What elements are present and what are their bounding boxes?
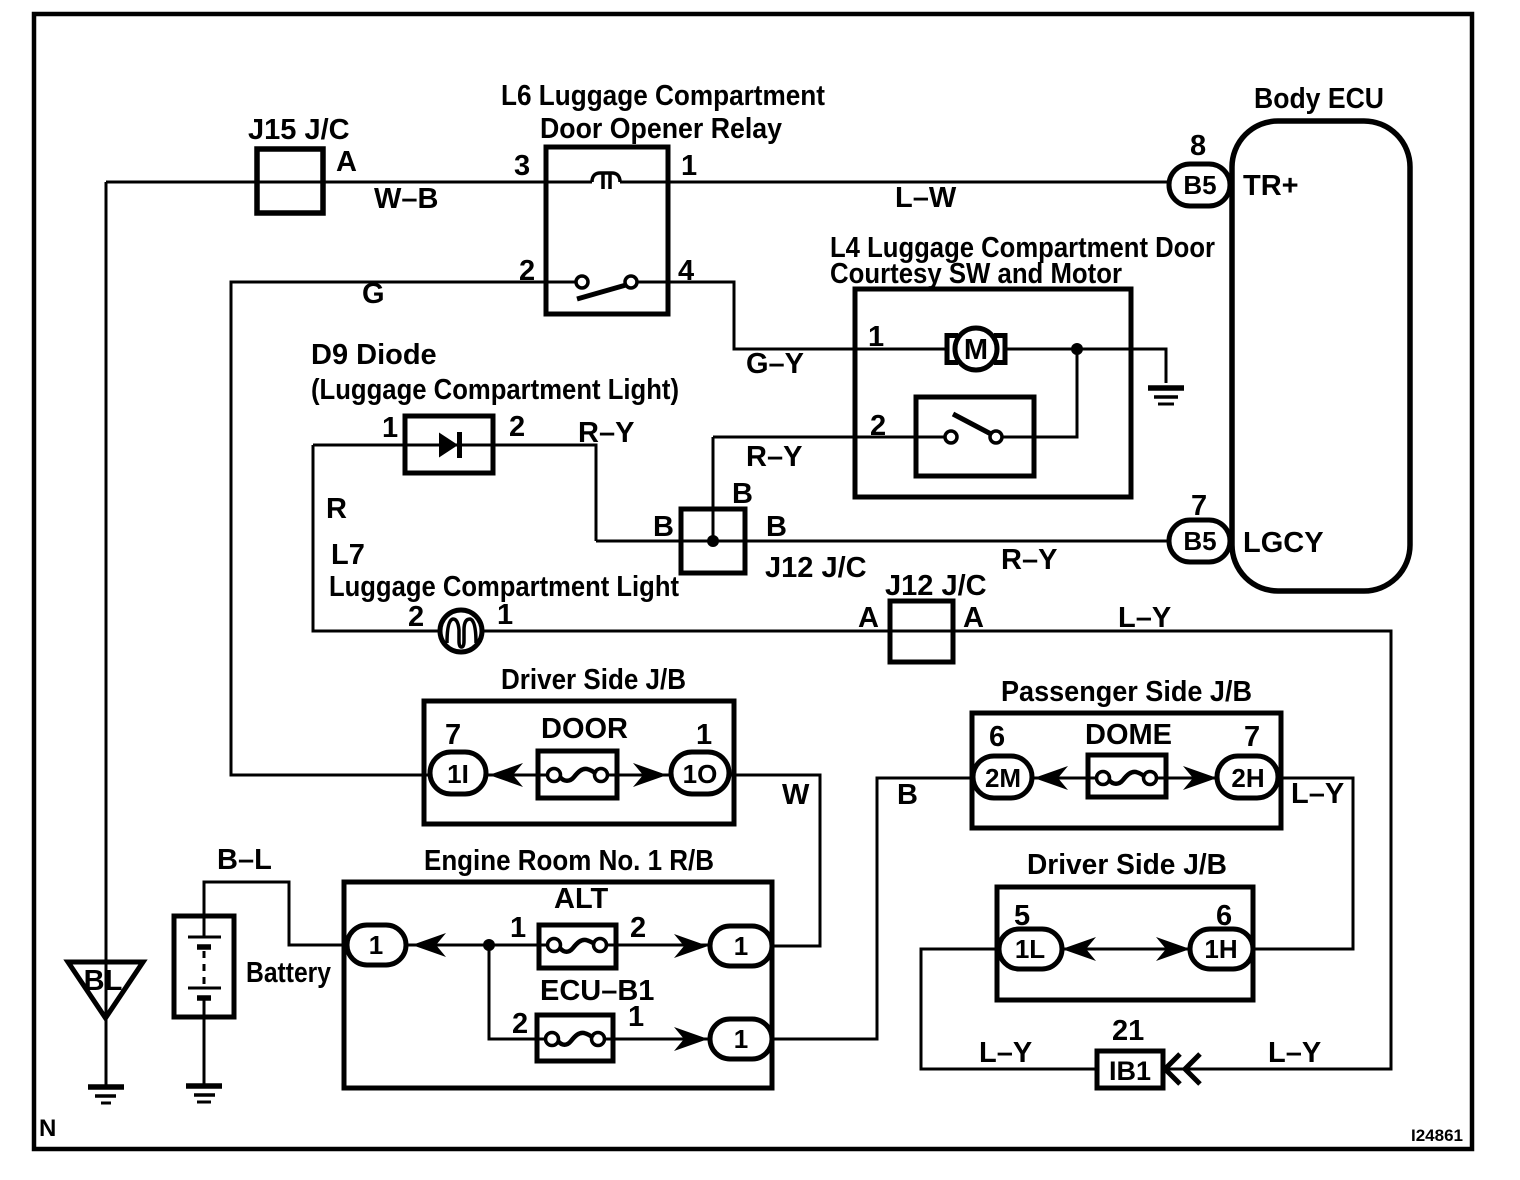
wire: inside Passenger Side J/B 2M to DOME fuse bbox=[1031, 777, 1097, 780]
wire W: 1O right down to Engine Room ALT output bbox=[728, 775, 820, 946]
svg-text:L–Y: L–Y bbox=[1291, 778, 1344, 810]
svg-text:1: 1 bbox=[369, 930, 383, 960]
svg-text:BL: BL bbox=[84, 965, 123, 997]
passenger side J/B box bbox=[972, 713, 1281, 828]
svg-text:21: 21 bbox=[1112, 1015, 1144, 1047]
fuse ECU-B1 element bbox=[546, 1033, 559, 1046]
svg-text:J12 J/C: J12 J/C bbox=[885, 570, 987, 602]
svg-text:R–Y: R–Y bbox=[578, 417, 634, 449]
wire: Engine Room input oval to junction and ALT fuse bbox=[405, 944, 547, 947]
svg-text:7: 7 bbox=[1191, 490, 1207, 522]
svg-text:Body ECU: Body ECU bbox=[1254, 83, 1384, 115]
svg-text:1L: 1L bbox=[1015, 934, 1045, 964]
svg-text:2M: 2M bbox=[985, 763, 1021, 793]
svg-text:1: 1 bbox=[734, 931, 748, 961]
junction dot motor/ground node bbox=[1071, 343, 1083, 355]
fuse DOOR box bbox=[538, 751, 617, 798]
arrow ALT output (right) bbox=[674, 934, 708, 958]
wire W-B: left vertical from top wire down to BL bbox=[105, 182, 108, 1085]
wire L-Y: lamp pin1 through J12 A-A right then down to IB1 bbox=[481, 631, 1391, 1069]
svg-text:1: 1 bbox=[382, 412, 398, 444]
svg-text:DOME: DOME bbox=[1085, 719, 1172, 751]
wire: courtesy switch right contact up to motor junction bbox=[1002, 352, 1077, 437]
connector oval 1L bbox=[999, 929, 1062, 969]
fuse DOOR element bbox=[548, 769, 561, 782]
wire W-B: horizontal from vertical through J15 to relay pin 3 bbox=[106, 181, 592, 184]
svg-text:G: G bbox=[362, 278, 385, 310]
svg-text:TR+: TR+ bbox=[1243, 170, 1299, 202]
svg-text:L–Y: L–Y bbox=[1268, 1037, 1321, 1069]
svg-text:1: 1 bbox=[681, 150, 697, 182]
svg-text:2: 2 bbox=[509, 411, 525, 443]
connector oval 1H bbox=[1190, 929, 1253, 969]
connector oval 2M bbox=[973, 756, 1032, 798]
fuse ALT box bbox=[539, 925, 616, 968]
battery bbox=[174, 916, 234, 1017]
wire L-Y: IB1 left to Driver Side J/B 1L bbox=[921, 949, 1097, 1069]
svg-text:ALT: ALT bbox=[554, 883, 609, 915]
wire R: vertical diode pin1 to lamp pin 2 bbox=[313, 445, 441, 631]
wire: DOOR fuse to 1O bbox=[607, 774, 672, 777]
svg-text:J15 J/C: J15 J/C bbox=[248, 114, 350, 146]
svg-text:1: 1 bbox=[628, 1001, 644, 1033]
svg-text:W: W bbox=[782, 779, 810, 811]
body ECU box bbox=[1232, 121, 1410, 591]
svg-text:A: A bbox=[858, 602, 879, 634]
connector IB1 bbox=[1097, 1051, 1163, 1088]
svg-text:3: 3 bbox=[514, 150, 530, 182]
diode D9 symbol bbox=[439, 433, 458, 458]
ground G2 (battery) bbox=[186, 1086, 222, 1102]
wire: 1L to 1H inside lower Driver Side J/B bbox=[1061, 948, 1191, 951]
wire L-Y: 2H right down to 1H bbox=[1252, 778, 1353, 949]
relay L6 coil bbox=[592, 173, 620, 182]
L4 luggage compartment door box bbox=[855, 289, 1131, 497]
svg-text:L6 Luggage Compartment: L6 Luggage Compartment bbox=[501, 80, 825, 112]
svg-text:B–L: B–L bbox=[217, 844, 272, 876]
junction connector J12 J/C (B) bbox=[681, 509, 745, 573]
svg-text:A: A bbox=[336, 146, 357, 178]
connector oval 1I bbox=[430, 752, 486, 794]
lamp L7 luggage compartment light bbox=[440, 610, 482, 652]
svg-text:B: B bbox=[653, 511, 674, 543]
svg-text:Battery: Battery bbox=[246, 957, 331, 989]
svg-text:R: R bbox=[326, 493, 347, 525]
svg-text:B5: B5 bbox=[1183, 170, 1216, 200]
relay L6 switch contacts bbox=[576, 276, 588, 288]
svg-text:1I: 1I bbox=[447, 759, 469, 789]
wire B: 2M left down to Engine Room ECU-B1 output bbox=[771, 778, 974, 1039]
svg-text:B: B bbox=[766, 511, 787, 543]
connector J15 J/C bbox=[257, 149, 323, 213]
svg-text:R–Y: R–Y bbox=[746, 441, 802, 473]
wire: ECU-B1 fuse to right oval 1 bbox=[604, 1038, 711, 1041]
svg-text:1: 1 bbox=[734, 1024, 748, 1054]
wire L-W: relay pin 1 to Body ECU B5 TR+ bbox=[620, 181, 1170, 184]
wire R-Y: through J12 J/C to Body ECU B5 LGCY bbox=[596, 540, 1170, 543]
svg-text:L–Y: L–Y bbox=[979, 1037, 1032, 1069]
wire: diode branch from R net to R-Y wire bbox=[313, 445, 596, 541]
fuse ECU-B1 box bbox=[537, 1015, 613, 1061]
svg-text:8: 8 bbox=[1190, 130, 1206, 162]
svg-text:M: M bbox=[964, 334, 988, 366]
engine room No.1 R/B box bbox=[344, 882, 772, 1088]
svg-text:L7: L7 bbox=[331, 539, 365, 571]
svg-text:1H: 1H bbox=[1204, 934, 1237, 964]
wire: DOME fuse to 2H bbox=[1155, 777, 1218, 780]
svg-text:1: 1 bbox=[510, 912, 526, 944]
svg-text:Courtesy SW and Motor: Courtesy SW and Motor bbox=[830, 258, 1122, 290]
courtesy switch blade bbox=[953, 414, 991, 434]
svg-text:6: 6 bbox=[989, 721, 1005, 753]
fuse ALT element bbox=[548, 939, 561, 952]
svg-text:Passenger Side J/B: Passenger Side J/B bbox=[1001, 676, 1252, 708]
svg-text:2H: 2H bbox=[1231, 763, 1264, 793]
wire: IB1 to right vertical bbox=[1163, 1068, 1391, 1071]
svg-text:R–Y: R–Y bbox=[1001, 544, 1057, 576]
svg-text:4: 4 bbox=[678, 255, 694, 287]
svg-text:1O: 1O bbox=[683, 759, 718, 789]
connector oval 1 (ECU-B1 output) bbox=[710, 1019, 772, 1059]
connector oval 1 (ALT output) bbox=[710, 926, 772, 966]
svg-text:Door Opener Relay: Door Opener Relay bbox=[540, 113, 782, 145]
wire: battery negative to ground bbox=[203, 1017, 206, 1084]
svg-text:1: 1 bbox=[497, 599, 513, 631]
svg-text:1: 1 bbox=[868, 321, 884, 353]
svg-text:A: A bbox=[963, 602, 984, 634]
ground G3 (BL) bbox=[88, 1087, 124, 1103]
svg-text:L–Y: L–Y bbox=[1118, 602, 1171, 634]
svg-text:I24861: I24861 bbox=[1411, 1126, 1463, 1145]
svg-text:(Luggage Compartment Light): (Luggage Compartment Light) bbox=[311, 374, 679, 406]
svg-text:IB1: IB1 bbox=[1109, 1056, 1151, 1086]
arrow into 1L (left) bbox=[1062, 937, 1096, 961]
wire B-L: battery positive to Engine Room input 1 bbox=[204, 882, 348, 945]
connector oval B5 pin 8 TR+ bbox=[1169, 164, 1230, 206]
svg-text:G–Y: G–Y bbox=[746, 348, 804, 380]
svg-text:B: B bbox=[897, 779, 918, 811]
svg-text:2: 2 bbox=[512, 1008, 528, 1040]
svg-text:1: 1 bbox=[696, 719, 712, 751]
connector oval B5 pin 7 LGCY bbox=[1169, 520, 1230, 562]
driver side J/B box (upper) bbox=[424, 701, 734, 824]
ground G1 (L4 motor) bbox=[1148, 388, 1184, 404]
svg-text:Engine Room No. 1 R/B: Engine Room No. 1 R/B bbox=[424, 845, 714, 877]
svg-text:2: 2 bbox=[630, 912, 646, 944]
svg-text:Driver Side J/B: Driver Side J/B bbox=[501, 664, 686, 696]
svg-text:2: 2 bbox=[519, 255, 535, 287]
chevron arrows at IB1 bbox=[1165, 1054, 1200, 1084]
wire R-Y: courtesy switch pin 2 to corner bbox=[713, 436, 945, 439]
wire G: relay pin 2 left then down to Driver Side J/B 1I bbox=[231, 282, 577, 775]
arrow ECU-B1 output (right) bbox=[674, 1027, 708, 1051]
arrow into 2M (left) bbox=[1034, 766, 1068, 790]
connector oval 1O bbox=[671, 752, 729, 794]
diode D9 box bbox=[405, 416, 493, 473]
arrow into input 1 (left) bbox=[412, 933, 446, 957]
wire: junction down to ECU-B1 fuse bbox=[489, 945, 546, 1039]
noise filter BL triangle bbox=[68, 962, 143, 1018]
svg-text:W–B: W–B bbox=[374, 183, 438, 215]
wire: inside Driver Side J/B 1I to DOOR fuse bbox=[485, 774, 548, 777]
svg-text:LGCY: LGCY bbox=[1243, 527, 1324, 559]
driver side J/B box (lower) bbox=[997, 887, 1253, 1000]
fuse DOME box bbox=[1088, 755, 1166, 797]
svg-text:Driver Side J/B: Driver Side J/B bbox=[1027, 849, 1227, 881]
motor M1 bbox=[947, 328, 1005, 370]
svg-text:B: B bbox=[732, 478, 753, 510]
arrow into 1H (right) bbox=[1156, 937, 1190, 961]
courtesy switch contacts bbox=[945, 431, 957, 443]
junction dot in J12 J/C bbox=[707, 535, 719, 547]
fuse DOME element bbox=[1097, 772, 1110, 785]
arrow into 1O (right) bbox=[633, 763, 667, 787]
svg-text:J12 J/C: J12 J/C bbox=[765, 552, 867, 584]
svg-text:L–W: L–W bbox=[895, 182, 957, 214]
svg-text:7: 7 bbox=[445, 719, 461, 751]
courtesy switch box bbox=[916, 397, 1034, 476]
wire G-Y: relay pin 4 down-right into L4 to motor bbox=[637, 282, 949, 349]
connector oval 1 (engine room input) bbox=[347, 925, 406, 965]
arrow into 1I (left) bbox=[489, 763, 523, 787]
junction connector J12 J/C (A-A) bbox=[890, 601, 953, 662]
svg-text:7: 7 bbox=[1244, 721, 1260, 753]
svg-text:N: N bbox=[39, 1115, 56, 1142]
svg-text:6: 6 bbox=[1216, 900, 1232, 932]
relay L6 box bbox=[546, 147, 668, 314]
arrow into 2H (right) bbox=[1183, 766, 1217, 790]
wire R-Y vertical: corner down into J12 junction bbox=[712, 437, 715, 541]
svg-text:2: 2 bbox=[870, 410, 886, 442]
svg-text:5: 5 bbox=[1014, 900, 1030, 932]
wire: ALT fuse to right oval 1 bbox=[606, 944, 711, 947]
svg-text:DOOR: DOOR bbox=[541, 713, 628, 745]
connector oval 2H bbox=[1217, 756, 1278, 798]
wire: motor to L4 right edge and ground bbox=[1003, 349, 1166, 383]
svg-text:2: 2 bbox=[408, 601, 424, 633]
junction dot battery feed bbox=[483, 939, 495, 951]
relay L6 switch blade bbox=[577, 285, 626, 299]
svg-text:B5: B5 bbox=[1183, 526, 1216, 556]
svg-text:D9 Diode: D9 Diode bbox=[311, 339, 437, 371]
